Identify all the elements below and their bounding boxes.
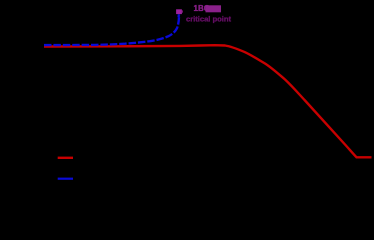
legend red line sample — [58, 157, 73, 159]
legend blue dashed line sample — [58, 178, 73, 180]
red binodal curve — [44, 45, 372, 157]
magenta critical point marker — [176, 9, 182, 14]
blue spinodal dashed curve — [44, 15, 179, 45]
blue dash under marker — [177, 14, 180, 17]
svg-text:critical point: critical point — [186, 15, 231, 24]
